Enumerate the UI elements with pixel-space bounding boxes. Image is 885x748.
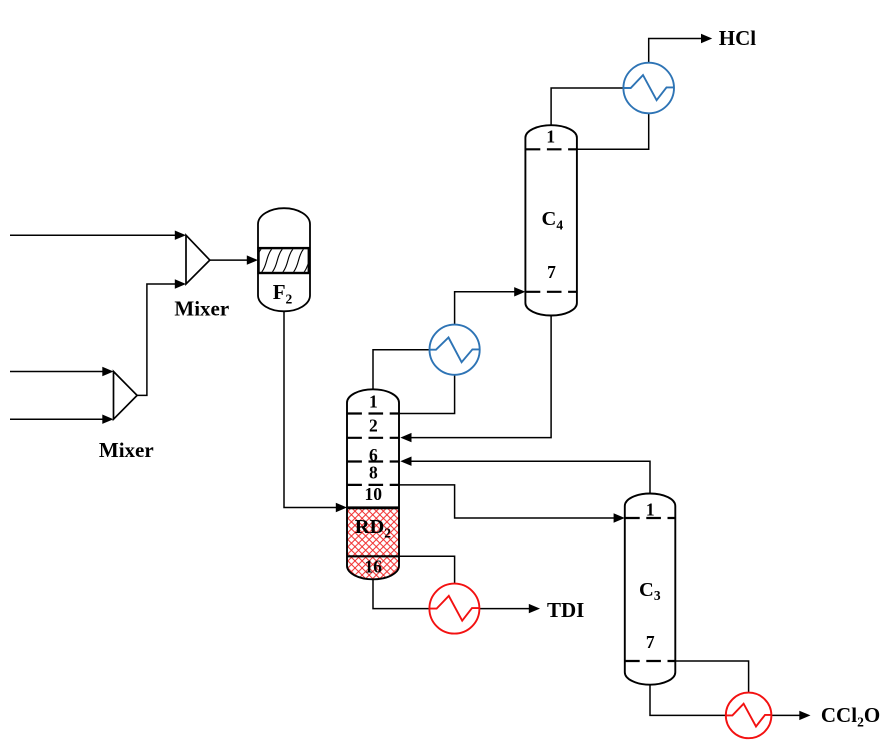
- svg-text:1: 1: [546, 127, 555, 147]
- svg-text:HCl: HCl: [719, 26, 757, 50]
- svg-text:10: 10: [364, 484, 382, 504]
- svg-text:8: 8: [369, 463, 378, 483]
- svg-text:1: 1: [369, 391, 378, 411]
- svg-text:TDI: TDI: [547, 598, 584, 622]
- svg-text:7: 7: [547, 262, 556, 282]
- svg-text:2: 2: [369, 415, 378, 435]
- svg-text:Mixer: Mixer: [174, 296, 229, 320]
- svg-text:1: 1: [646, 499, 655, 519]
- svg-text:16: 16: [364, 557, 382, 577]
- svg-text:Mixer: Mixer: [99, 438, 154, 462]
- svg-text:CCl2O: CCl2O: [821, 703, 880, 730]
- svg-text:7: 7: [646, 632, 655, 652]
